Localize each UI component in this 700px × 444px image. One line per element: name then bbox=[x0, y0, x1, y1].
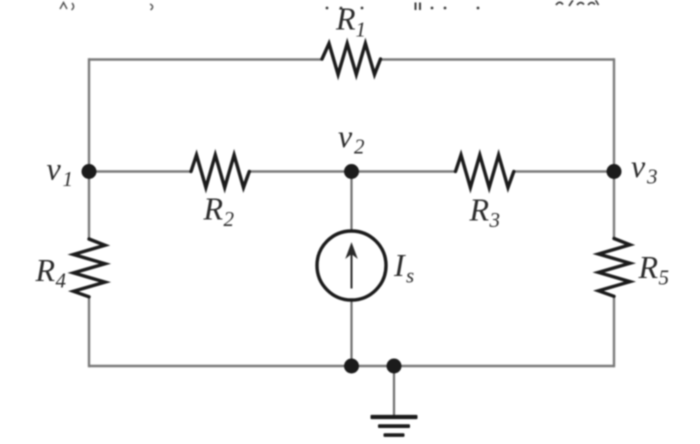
label R5 bbox=[638, 249, 670, 290]
svg-text:5: 5 bbox=[659, 266, 670, 290]
svg-text:1: 1 bbox=[356, 18, 367, 42]
wire left vertical upper (top corner to v1 node) bbox=[88, 58, 90, 172]
ground bbox=[371, 415, 418, 437]
wire middle (v1 to R2) bbox=[89, 170, 192, 173]
resistor R4 bbox=[74, 239, 106, 297]
wire middle (R3 to v3) bbox=[514, 170, 615, 173]
wire middle (v2 to R3) bbox=[352, 170, 456, 173]
current source Is (circle) bbox=[317, 231, 386, 300]
node bottom-center (Is branch junction) bbox=[344, 359, 359, 374]
resistor R3 bbox=[456, 155, 514, 188]
svg-text:v: v bbox=[47, 151, 62, 187]
label v2 bbox=[338, 118, 365, 159]
svg-text:v: v bbox=[338, 118, 353, 154]
svg-text:s: s bbox=[406, 264, 414, 288]
node ground junction bbox=[387, 359, 402, 374]
label v1 bbox=[47, 151, 74, 192]
svg-text:v: v bbox=[631, 148, 646, 184]
svg-text:R: R bbox=[335, 1, 356, 37]
svg-text:3: 3 bbox=[646, 165, 658, 189]
wire left vertical lower (R4 to bottom corner) bbox=[88, 296, 90, 367]
wire bottom (v1 corner to v3 corner through ground nodes) bbox=[89, 365, 614, 368]
svg-text:2: 2 bbox=[224, 207, 235, 231]
wire right vertical upper (top corner to v3 node) bbox=[613, 58, 615, 171]
label R1 bbox=[335, 1, 366, 42]
label v3 bbox=[631, 148, 658, 189]
wire right vertical (v3 node to R5) bbox=[613, 172, 615, 240]
node v3 bbox=[607, 164, 622, 179]
wire current-source branch lower (Is circle to bottom node) bbox=[350, 300, 352, 367]
resistor R1 bbox=[322, 44, 381, 75]
label R3 bbox=[469, 192, 501, 233]
svg-text:3: 3 bbox=[489, 208, 501, 232]
svg-text:R: R bbox=[35, 252, 56, 288]
svg-text:4: 4 bbox=[56, 269, 67, 293]
node v1 bbox=[82, 164, 97, 179]
node v2 bbox=[344, 164, 359, 179]
svg-text:R: R bbox=[469, 192, 490, 228]
wire top-right (R1 to v3 top corner) bbox=[380, 58, 614, 61]
label Is bbox=[393, 247, 414, 288]
wire right vertical lower (R5 to bottom corner) bbox=[613, 296, 615, 367]
current source arrow bbox=[346, 244, 356, 289]
svg-text:1: 1 bbox=[63, 167, 74, 191]
resistor R5 bbox=[599, 239, 631, 297]
cropped text line fragments (top edge) bbox=[60, 0, 599, 10]
wire left vertical (v1 node to R4) bbox=[88, 172, 90, 240]
resistor R2 bbox=[191, 155, 249, 188]
wire current-source branch upper (v2 to Is circle) bbox=[350, 172, 352, 232]
label R4 bbox=[35, 252, 67, 293]
svg-text:R: R bbox=[203, 191, 224, 227]
wire ground stub bbox=[393, 366, 395, 416]
label R2 bbox=[203, 191, 235, 232]
wire middle (R2 to v2) bbox=[249, 170, 352, 173]
svg-text:R: R bbox=[638, 249, 659, 285]
wire top-left (v1 top corner to R1) bbox=[89, 58, 323, 61]
svg-text:I: I bbox=[393, 247, 406, 283]
svg-text:2: 2 bbox=[354, 135, 365, 159]
